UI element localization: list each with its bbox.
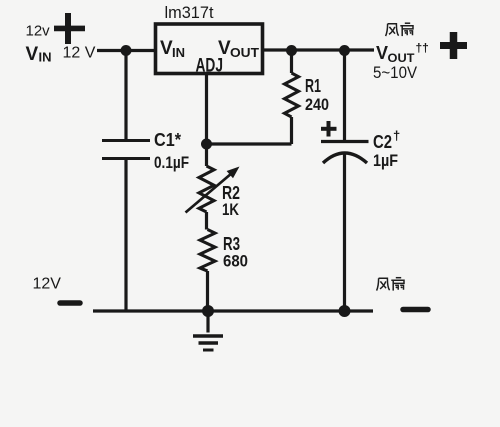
svg-text:12V: 12V	[33, 276, 62, 293]
svg-text:V: V	[26, 44, 39, 65]
svg-text:5~10V: 5~10V	[373, 64, 417, 82]
svg-text:OUT: OUT	[230, 45, 259, 60]
svg-text:240: 240	[305, 95, 329, 114]
svg-text:lm317t: lm317t	[165, 3, 214, 22]
svg-text:12 V: 12 V	[63, 45, 96, 62]
svg-text:R1: R1	[305, 76, 321, 96]
svg-text:††: ††	[416, 41, 429, 55]
svg-text:C1*: C1*	[154, 130, 181, 150]
svg-text:ADJ: ADJ	[196, 56, 224, 77]
svg-text:†: †	[393, 128, 400, 143]
svg-text:680: 680	[223, 252, 248, 271]
svg-text:IN: IN	[39, 50, 52, 65]
svg-text:1µF: 1µF	[373, 151, 398, 170]
svg-text:C2: C2	[373, 132, 392, 152]
svg-text:12v: 12v	[26, 23, 51, 40]
svg-text:OUT: OUT	[388, 51, 416, 65]
svg-text:1K: 1K	[222, 200, 240, 219]
svg-text:0.1µF: 0.1µF	[154, 153, 189, 172]
svg-text:IN: IN	[172, 45, 185, 60]
svg-text:V: V	[376, 43, 388, 63]
